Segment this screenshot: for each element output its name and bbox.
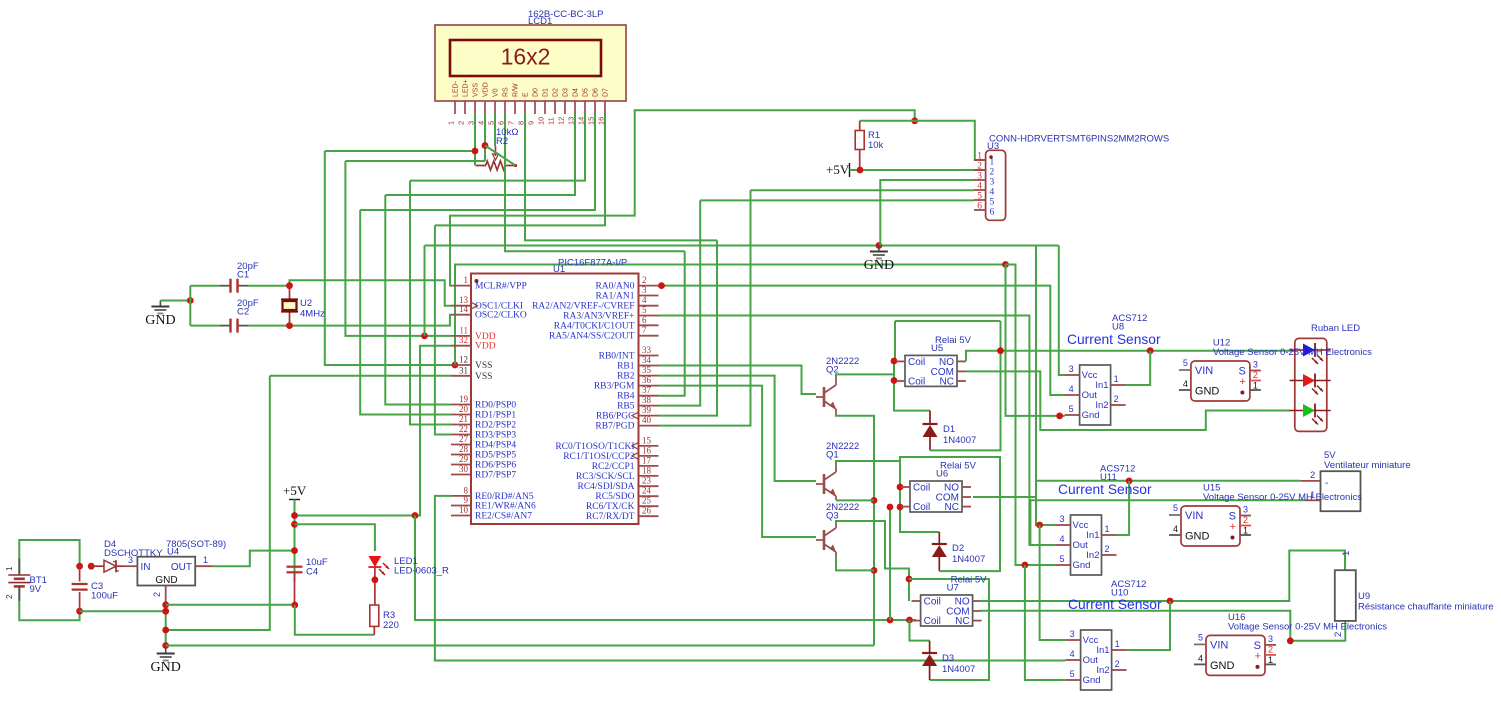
svg-text:RB2: RB2 xyxy=(617,372,635,382)
U1 pin 28 RD5/PSP5 xyxy=(451,454,471,456)
wire tap to U8 In1 xyxy=(1126,351,1151,385)
LCD1 pin 9 D0 xyxy=(534,101,536,114)
svg-text:NC: NC xyxy=(955,616,969,627)
svg-text:D0: D0 xyxy=(533,88,540,97)
svg-text:+: + xyxy=(1255,650,1261,662)
fan module 5V Ventilateur miniature xyxy=(1321,471,1361,511)
U1 pin 23 RC4/SDI/SDA xyxy=(639,485,659,487)
svg-text:2: 2 xyxy=(1310,470,1315,481)
svg-text:17: 17 xyxy=(642,455,652,465)
junction U11 Vcc xyxy=(1036,522,1043,529)
U1 pin 39 RB6/PGC xyxy=(639,415,659,417)
wire RB4 riser xyxy=(659,251,685,396)
svg-text:1: 1 xyxy=(1268,655,1273,665)
wire Q2 collector to U5 coil xyxy=(836,374,894,378)
svg-text:RC0/T1OSO/T1CKI: RC0/T1OSO/T1CKI xyxy=(555,442,634,452)
svg-text:LED-0603_R: LED-0603_R xyxy=(394,566,449,577)
U1 pin 40 RB7/PGD xyxy=(639,425,659,427)
svg-text:RC1/T1OSI/CCP2: RC1/T1OSI/CCP2 xyxy=(563,452,635,462)
wire sensor gnd riser to U8 Gnd xyxy=(1006,265,1065,416)
svg-text:35: 35 xyxy=(642,365,652,375)
junction C3 top xyxy=(76,563,83,570)
LCD1 pin 4 VDD xyxy=(484,101,486,114)
svg-text:1: 1 xyxy=(1310,490,1315,501)
regulator U4 7805(SOT-89) xyxy=(137,557,195,586)
junction U10 In1 tap xyxy=(1167,598,1174,605)
relay U5 Relai 5V xyxy=(905,355,957,386)
svg-text:D2: D2 xyxy=(952,543,964,554)
junction xyxy=(472,148,479,155)
wire U6 coil bottom branch down xyxy=(889,507,891,620)
junction U8 gnd xyxy=(1056,413,1063,420)
svg-text:5: 5 xyxy=(1060,554,1065,564)
svg-text:3: 3 xyxy=(642,285,647,295)
wire rail A down to U8 Vcc xyxy=(1059,246,1065,376)
svg-text:20: 20 xyxy=(459,404,469,414)
wire Q2 emitter to emitter bus xyxy=(836,413,874,646)
svg-text:GND: GND xyxy=(1210,660,1235,672)
svg-text:24: 24 xyxy=(642,486,652,496)
wire D6 bus to RD1 xyxy=(360,210,451,415)
microcontroller U1 PIC16F877A-I/P xyxy=(471,274,639,525)
junction Q3 emitter xyxy=(871,567,878,574)
svg-text:+: + xyxy=(1230,521,1236,533)
junction LED cathode xyxy=(372,576,379,583)
junction C3 bottom xyxy=(76,608,83,615)
voltage sensor module U12 xyxy=(1191,361,1250,401)
wire U5 coil feed from NO column xyxy=(1000,321,1002,351)
svg-text:RC6/TX/CK: RC6/TX/CK xyxy=(586,502,635,512)
svg-text:IN: IN xyxy=(141,562,151,573)
ground symbol near U3 xyxy=(878,246,880,252)
svg-text:1: 1 xyxy=(464,275,469,285)
junction caps gnd xyxy=(187,297,194,304)
LCD1 pin 11 D2 xyxy=(554,101,556,114)
wire LCD pin15 D6 down xyxy=(360,114,595,210)
resistor R1 10k xyxy=(859,121,861,131)
svg-text:1: 1 xyxy=(1114,374,1119,384)
svg-text:RC4/SDI/SDA: RC4/SDI/SDA xyxy=(577,482,634,492)
svg-text:26: 26 xyxy=(642,506,652,516)
svg-text:GND: GND xyxy=(155,575,177,586)
svg-text:27: 27 xyxy=(459,434,469,444)
svg-text:OSC2/CLKO: OSC2/CLKO xyxy=(475,311,527,321)
LCD1 pin 16 D7 xyxy=(604,101,606,114)
current sensor module U11 ACS712 xyxy=(1071,515,1102,575)
svg-text:9: 9 xyxy=(464,495,469,505)
wire RB1 to Q2 base xyxy=(659,366,817,395)
svg-text:D6: D6 xyxy=(593,88,600,97)
svg-text:4: 4 xyxy=(1183,379,1188,389)
svg-text:Coil: Coil xyxy=(913,502,930,513)
junction RA0 xyxy=(658,282,665,289)
svg-text:1: 1 xyxy=(990,158,995,168)
wire GND rail bottom xyxy=(166,645,874,647)
wire U7 coil bottom to D3 xyxy=(910,620,930,641)
svg-text:Gnd: Gnd xyxy=(1083,675,1101,686)
svg-text:U5: U5 xyxy=(931,343,943,354)
svg-text:3: 3 xyxy=(990,178,995,188)
svg-text:RD7/PSP7: RD7/PSP7 xyxy=(475,471,516,481)
U1 pin 17 RC2/CCP1 xyxy=(639,465,659,467)
svg-text:32: 32 xyxy=(459,335,468,345)
clock mark pin 15 xyxy=(632,442,639,449)
svg-text:5: 5 xyxy=(990,198,995,208)
wire feed down to U10 Vcc xyxy=(1040,525,1066,640)
svg-text:RA1/AN1: RA1/AN1 xyxy=(595,292,634,302)
junction relay coil feed xyxy=(887,617,894,624)
svg-text:2: 2 xyxy=(152,592,162,597)
svg-text:33: 33 xyxy=(642,345,652,355)
svg-text:2: 2 xyxy=(1253,370,1258,380)
svg-text:4: 4 xyxy=(1173,524,1178,534)
svg-text:D1: D1 xyxy=(543,88,550,97)
svg-text:1: 1 xyxy=(1105,524,1110,534)
wire LCD pin16 D7 down xyxy=(435,114,605,225)
wire LCD pin6 RS down and right to RB4 riser xyxy=(505,114,685,251)
U1 pin 3 RA1/AN1 xyxy=(639,295,659,297)
svg-text:D7: D7 xyxy=(603,88,610,97)
svg-text:6: 6 xyxy=(977,202,982,212)
svg-text:-: - xyxy=(1325,478,1328,489)
svg-text:10k: 10k xyxy=(868,140,884,151)
svg-text:23: 23 xyxy=(642,476,652,486)
svg-text:12: 12 xyxy=(459,355,468,365)
svg-text:RB6/PGC: RB6/PGC xyxy=(596,412,635,422)
svg-text:RD1/PSP1: RD1/PSP1 xyxy=(475,411,516,421)
svg-text:VSS: VSS xyxy=(475,361,492,371)
U1 pin 8 RE0/RD#/AN5 xyxy=(451,495,471,497)
wire LCD pin5 V0 down xyxy=(494,114,496,146)
svg-text:2: 2 xyxy=(642,275,647,285)
svg-text:3: 3 xyxy=(1070,629,1075,639)
LCD1 pin 8 E xyxy=(524,101,526,114)
svg-text:D3: D3 xyxy=(563,88,570,97)
svg-text:VDD: VDD xyxy=(475,332,496,342)
svg-text:RD0/PSP0: RD0/PSP0 xyxy=(475,401,516,411)
capacitor C2 20pF xyxy=(220,325,231,327)
battery BT1 9V xyxy=(19,540,79,575)
wire U5 COM to Ruban LED green xyxy=(966,371,1290,430)
U1 pin 32 VDD xyxy=(451,345,471,347)
svg-text:In1: In1 xyxy=(1096,645,1109,656)
wire VDD/GND rail A xyxy=(425,245,1059,247)
U1 pin 22 RD3/PSP3 xyxy=(451,434,471,436)
wire VDD bus line2 xyxy=(345,160,485,162)
wire RB3 to Q3 base xyxy=(659,386,817,537)
wire U4 gnd to C4 bottom xyxy=(166,604,295,606)
svg-text:4: 4 xyxy=(1070,649,1075,659)
power flag +5V near R1 xyxy=(849,163,851,177)
U1 pin 19 RD0/PSP0 xyxy=(451,404,471,406)
svg-text:C1: C1 xyxy=(237,270,249,281)
wire Q3 collector to U7 coil xyxy=(836,521,909,601)
svg-text:Coil: Coil xyxy=(908,357,925,368)
U1 pin 35 RB2 xyxy=(639,375,659,377)
svg-text:18: 18 xyxy=(642,465,652,475)
U1 pin 37 RB4 xyxy=(639,395,659,397)
svg-text:16: 16 xyxy=(642,445,652,455)
svg-text:RC5/SDO: RC5/SDO xyxy=(595,492,634,502)
wire GND to caps junction xyxy=(160,300,190,302)
ground symbol left of C1/C2 xyxy=(159,301,161,307)
svg-text:14: 14 xyxy=(577,117,586,125)
wire RB7 riser to U3 pin4 xyxy=(659,190,751,425)
power flag +5V xyxy=(289,499,300,501)
U3 pin 1 xyxy=(974,159,986,161)
svg-text:Ventilateur miniature: Ventilateur miniature xyxy=(1324,460,1411,471)
junction +5V branch xyxy=(412,512,419,519)
LCD1 pin 5 V0 xyxy=(494,101,496,114)
svg-text:In1: In1 xyxy=(1095,380,1108,391)
svg-text:4: 4 xyxy=(977,182,982,192)
svg-text:3: 3 xyxy=(128,555,133,565)
svg-text:U2: U2 xyxy=(300,298,312,309)
LCD1 pin 1 LED- xyxy=(454,101,456,114)
svg-text:2: 2 xyxy=(1268,644,1273,654)
wire gnd junction to C1 xyxy=(189,286,191,326)
svg-text:Q3: Q3 xyxy=(826,511,839,522)
svg-text:RE1/WR#/AN6: RE1/WR#/AN6 xyxy=(475,502,536,512)
svg-text:2: 2 xyxy=(1114,394,1119,404)
svg-text:RA3/AN3/VREF+: RA3/AN3/VREF+ xyxy=(563,312,634,322)
svg-text:+: + xyxy=(1239,376,1245,388)
svg-text:RB1: RB1 xyxy=(617,362,635,372)
wire C2 to OSC2 xyxy=(248,315,451,326)
svg-text:OUT: OUT xyxy=(171,562,192,573)
svg-text:40: 40 xyxy=(642,415,652,425)
svg-text:Coil: Coil xyxy=(924,616,941,627)
svg-text:Gnd: Gnd xyxy=(1073,560,1091,571)
wire U4 gnd node xyxy=(165,605,167,648)
wire U3 pin4 to RB7 riser xyxy=(751,189,975,191)
U1 pin 11 VDD xyxy=(451,335,471,337)
svg-text:Ruban LED: Ruban LED xyxy=(1311,323,1360,334)
junction U11 gnd chain xyxy=(1022,562,1029,569)
U1 pin 1 MCLR#/VPP xyxy=(451,285,471,287)
svg-text:8: 8 xyxy=(464,485,469,495)
svg-text:RD6/PSP6: RD6/PSP6 xyxy=(475,461,516,471)
svg-text:5: 5 xyxy=(487,121,496,125)
transistor Q2 2N2222 xyxy=(823,387,826,407)
svg-text:6: 6 xyxy=(990,208,995,218)
junction at VSS pin 12 xyxy=(452,362,459,369)
wire D4 bus to RD0 xyxy=(385,195,451,405)
svg-text:3: 3 xyxy=(1268,634,1273,644)
wire U5 NO to Ruban LED blue xyxy=(966,351,1295,361)
svg-text:4: 4 xyxy=(642,295,647,305)
svg-text:R2: R2 xyxy=(496,136,508,147)
svg-text:C2: C2 xyxy=(237,307,249,318)
svg-text:GND: GND xyxy=(1195,386,1220,398)
svg-text:16x2: 16x2 xyxy=(501,44,551,70)
svg-text:D5: D5 xyxy=(583,88,590,97)
svg-text:RB3/PGM: RB3/PGM xyxy=(594,382,635,392)
svg-text:RB4: RB4 xyxy=(617,392,635,402)
svg-text:4MHz: 4MHz xyxy=(300,309,325,320)
svg-text:RB7/PGD: RB7/PGD xyxy=(595,422,634,432)
wire LCD pin14 D5 down xyxy=(410,114,585,181)
wire D7 bus to RD3 xyxy=(435,225,451,434)
U1 pin 31 VSS xyxy=(451,375,471,377)
wire fan return to U11 Out node xyxy=(1030,500,1305,545)
U3 pin 5 xyxy=(974,199,986,201)
junction xyxy=(482,142,489,149)
svg-text:11: 11 xyxy=(459,325,468,335)
diode D2 1N4007 xyxy=(938,532,940,544)
svg-text:3: 3 xyxy=(467,121,476,125)
diode D1 1N4007 xyxy=(929,411,931,424)
wire +5V riser to VDD line xyxy=(424,246,426,336)
wire RB5 riser to U3 pin5 xyxy=(659,200,701,405)
svg-text:12: 12 xyxy=(557,117,566,125)
svg-text:LCD1: LCD1 xyxy=(528,16,552,27)
svg-text:Voltage Sensor 0-25V MH Electr: Voltage Sensor 0-25V MH Electronics xyxy=(1203,492,1362,503)
svg-text:2: 2 xyxy=(990,168,995,178)
svg-text:37: 37 xyxy=(642,385,652,395)
svg-text:D4: D4 xyxy=(573,88,580,97)
svg-text:MCLR#/VPP: MCLR#/VPP xyxy=(475,282,527,292)
svg-text:Coil: Coil xyxy=(908,376,925,387)
wire U4 OUT to +5V rail xyxy=(213,551,294,567)
wire +5V down xyxy=(294,500,296,582)
svg-text:5: 5 xyxy=(977,192,982,202)
svg-text:Current Sensor: Current Sensor xyxy=(1058,482,1152,497)
svg-text:Coil: Coil xyxy=(913,483,930,494)
U1 pin 20 RD1/PSP1 xyxy=(451,414,471,416)
svg-text:Q1: Q1 xyxy=(826,450,839,461)
wire +5V to U3 pin2 xyxy=(850,169,986,171)
U1 pin 30 RD7/PSP7 xyxy=(451,474,471,476)
svg-text:21: 21 xyxy=(459,414,468,424)
svg-text:1: 1 xyxy=(203,555,208,565)
svg-text:30: 30 xyxy=(459,464,469,474)
relay U6 Relai 5V xyxy=(910,481,962,512)
svg-text:NC: NC xyxy=(945,502,959,513)
junction Q1 emitter xyxy=(871,497,878,504)
wire RA3 to U11 Out xyxy=(659,316,1056,546)
svg-text:GND: GND xyxy=(1185,531,1210,543)
wire RE0 to U10 Out xyxy=(435,496,1066,661)
svg-text:VSS: VSS xyxy=(475,372,492,382)
capacitor C1 20pF xyxy=(220,285,231,287)
svg-text:D2: D2 xyxy=(553,88,560,97)
U1 pin 36 RB3/PGM xyxy=(639,385,659,387)
svg-text:RD5/PSP5: RD5/PSP5 xyxy=(475,451,516,461)
svg-text:LED+: LED+ xyxy=(463,79,470,97)
wire RB6 riser xyxy=(659,240,718,415)
svg-text:29: 29 xyxy=(459,454,469,464)
svg-text:NC: NC xyxy=(940,376,954,387)
U1 pin 13 OSC1/CLKI xyxy=(451,305,471,307)
wire VSS line to sensors ground xyxy=(455,265,1006,366)
junction crystal bottom xyxy=(286,322,293,329)
U1 pin 27 RD4/PSP4 xyxy=(451,444,471,446)
junction U5 coil bottom xyxy=(891,377,898,384)
svg-text:5: 5 xyxy=(1070,669,1075,679)
svg-text:VDD: VDD xyxy=(475,342,496,352)
svg-text:Résistance chauffante miniatur: Résistance chauffante miniature xyxy=(1358,602,1494,613)
wire U11 gnd down to U10 gnd xyxy=(1025,565,1066,680)
svg-text:19: 19 xyxy=(459,394,469,404)
svg-text:VDD: VDD xyxy=(483,82,490,97)
svg-text:VSS: VSS xyxy=(473,83,480,97)
svg-text:RS: RS xyxy=(503,87,510,97)
svg-text:1: 1 xyxy=(447,121,456,125)
Ruban LED diode 1 xyxy=(1290,349,1331,351)
svg-text:PIC16F877A-I/P: PIC16F877A-I/P xyxy=(558,258,627,269)
crystal U2 4MHz xyxy=(289,286,291,301)
svg-text:2: 2 xyxy=(1105,544,1110,554)
wire LED1 branch xyxy=(295,524,375,551)
U1 pin 10 RE2/CS#/AN7 xyxy=(451,515,471,517)
U1 pin 16 RC1/T1OSI/CCP2 xyxy=(639,455,659,457)
U1 pin 7 RA5/AN4/SS/C2OUT xyxy=(639,335,659,337)
wire tap to U11 In1 xyxy=(1117,481,1130,535)
Ruban LED diode 3 xyxy=(1290,410,1331,412)
junction xyxy=(887,504,894,511)
junction U11 In1 tap xyxy=(1126,478,1133,485)
svg-text:RC7/RX/DT: RC7/RX/DT xyxy=(586,512,635,522)
svg-text:Coil: Coil xyxy=(924,597,941,608)
svg-text:U7: U7 xyxy=(947,583,959,594)
relay U7 Relai 5V xyxy=(921,595,973,626)
wire D2 bottom loop to Q1 collector node xyxy=(900,457,1000,571)
svg-text:In1: In1 xyxy=(1086,530,1099,541)
LCD1 pin 3 VSS xyxy=(474,101,476,114)
svg-text:D3: D3 xyxy=(942,653,954,664)
svg-text:100uF: 100uF xyxy=(91,591,118,602)
svg-text:1N4007: 1N4007 xyxy=(943,435,976,446)
wire D5 bus to RD2 xyxy=(410,181,451,425)
wire U6 COM to feed column xyxy=(973,496,1036,498)
svg-text:C4: C4 xyxy=(306,567,318,578)
junction heater corner xyxy=(1287,637,1294,644)
svg-text:5: 5 xyxy=(1198,632,1203,642)
capacitor C4 10uF xyxy=(287,566,303,568)
current sensor module U10 ACS712 xyxy=(1081,630,1112,690)
svg-text:U6: U6 xyxy=(936,469,948,480)
wire LCD pin8 E down and right to RB6 riser xyxy=(525,114,717,240)
wire Q1 collector to U6 coil xyxy=(836,461,939,532)
junction C4 bottom xyxy=(291,602,298,609)
svg-text:15: 15 xyxy=(587,117,596,125)
ground symbol bottom left xyxy=(165,648,167,654)
svg-text:1: 1 xyxy=(5,566,14,571)
U1 pin 5 RA3/AN3/VREF+ xyxy=(639,315,659,317)
svg-text:RB5: RB5 xyxy=(617,402,635,412)
svg-text:V0: V0 xyxy=(493,88,500,97)
svg-text:2: 2 xyxy=(1333,632,1344,637)
svg-text:5: 5 xyxy=(1069,404,1074,414)
svg-text:2: 2 xyxy=(5,594,14,599)
svg-text:GND: GND xyxy=(151,660,181,675)
wire U7 COM to heater bottom xyxy=(979,611,1345,641)
wire VSS column to pin31 and down to U4 GND node xyxy=(270,375,451,377)
U1 pin 14 OSC2/CLKO xyxy=(451,314,471,316)
junction U6 coil bottom xyxy=(897,504,904,511)
svg-text:1: 1 xyxy=(1115,639,1120,649)
LCD1 pin 15 D6 xyxy=(594,101,596,114)
wire LCD pin3 VSS down to pot xyxy=(474,114,476,166)
junction U7 coil top xyxy=(906,576,913,583)
svg-text:2: 2 xyxy=(457,121,466,125)
capacitor C3 100uF xyxy=(79,566,81,581)
svg-text:5: 5 xyxy=(642,305,647,315)
svg-text:GND: GND xyxy=(864,258,894,273)
svg-text:1: 1 xyxy=(1253,381,1258,391)
wire VDD bus line2 down to PIC VDD line xyxy=(345,161,451,336)
